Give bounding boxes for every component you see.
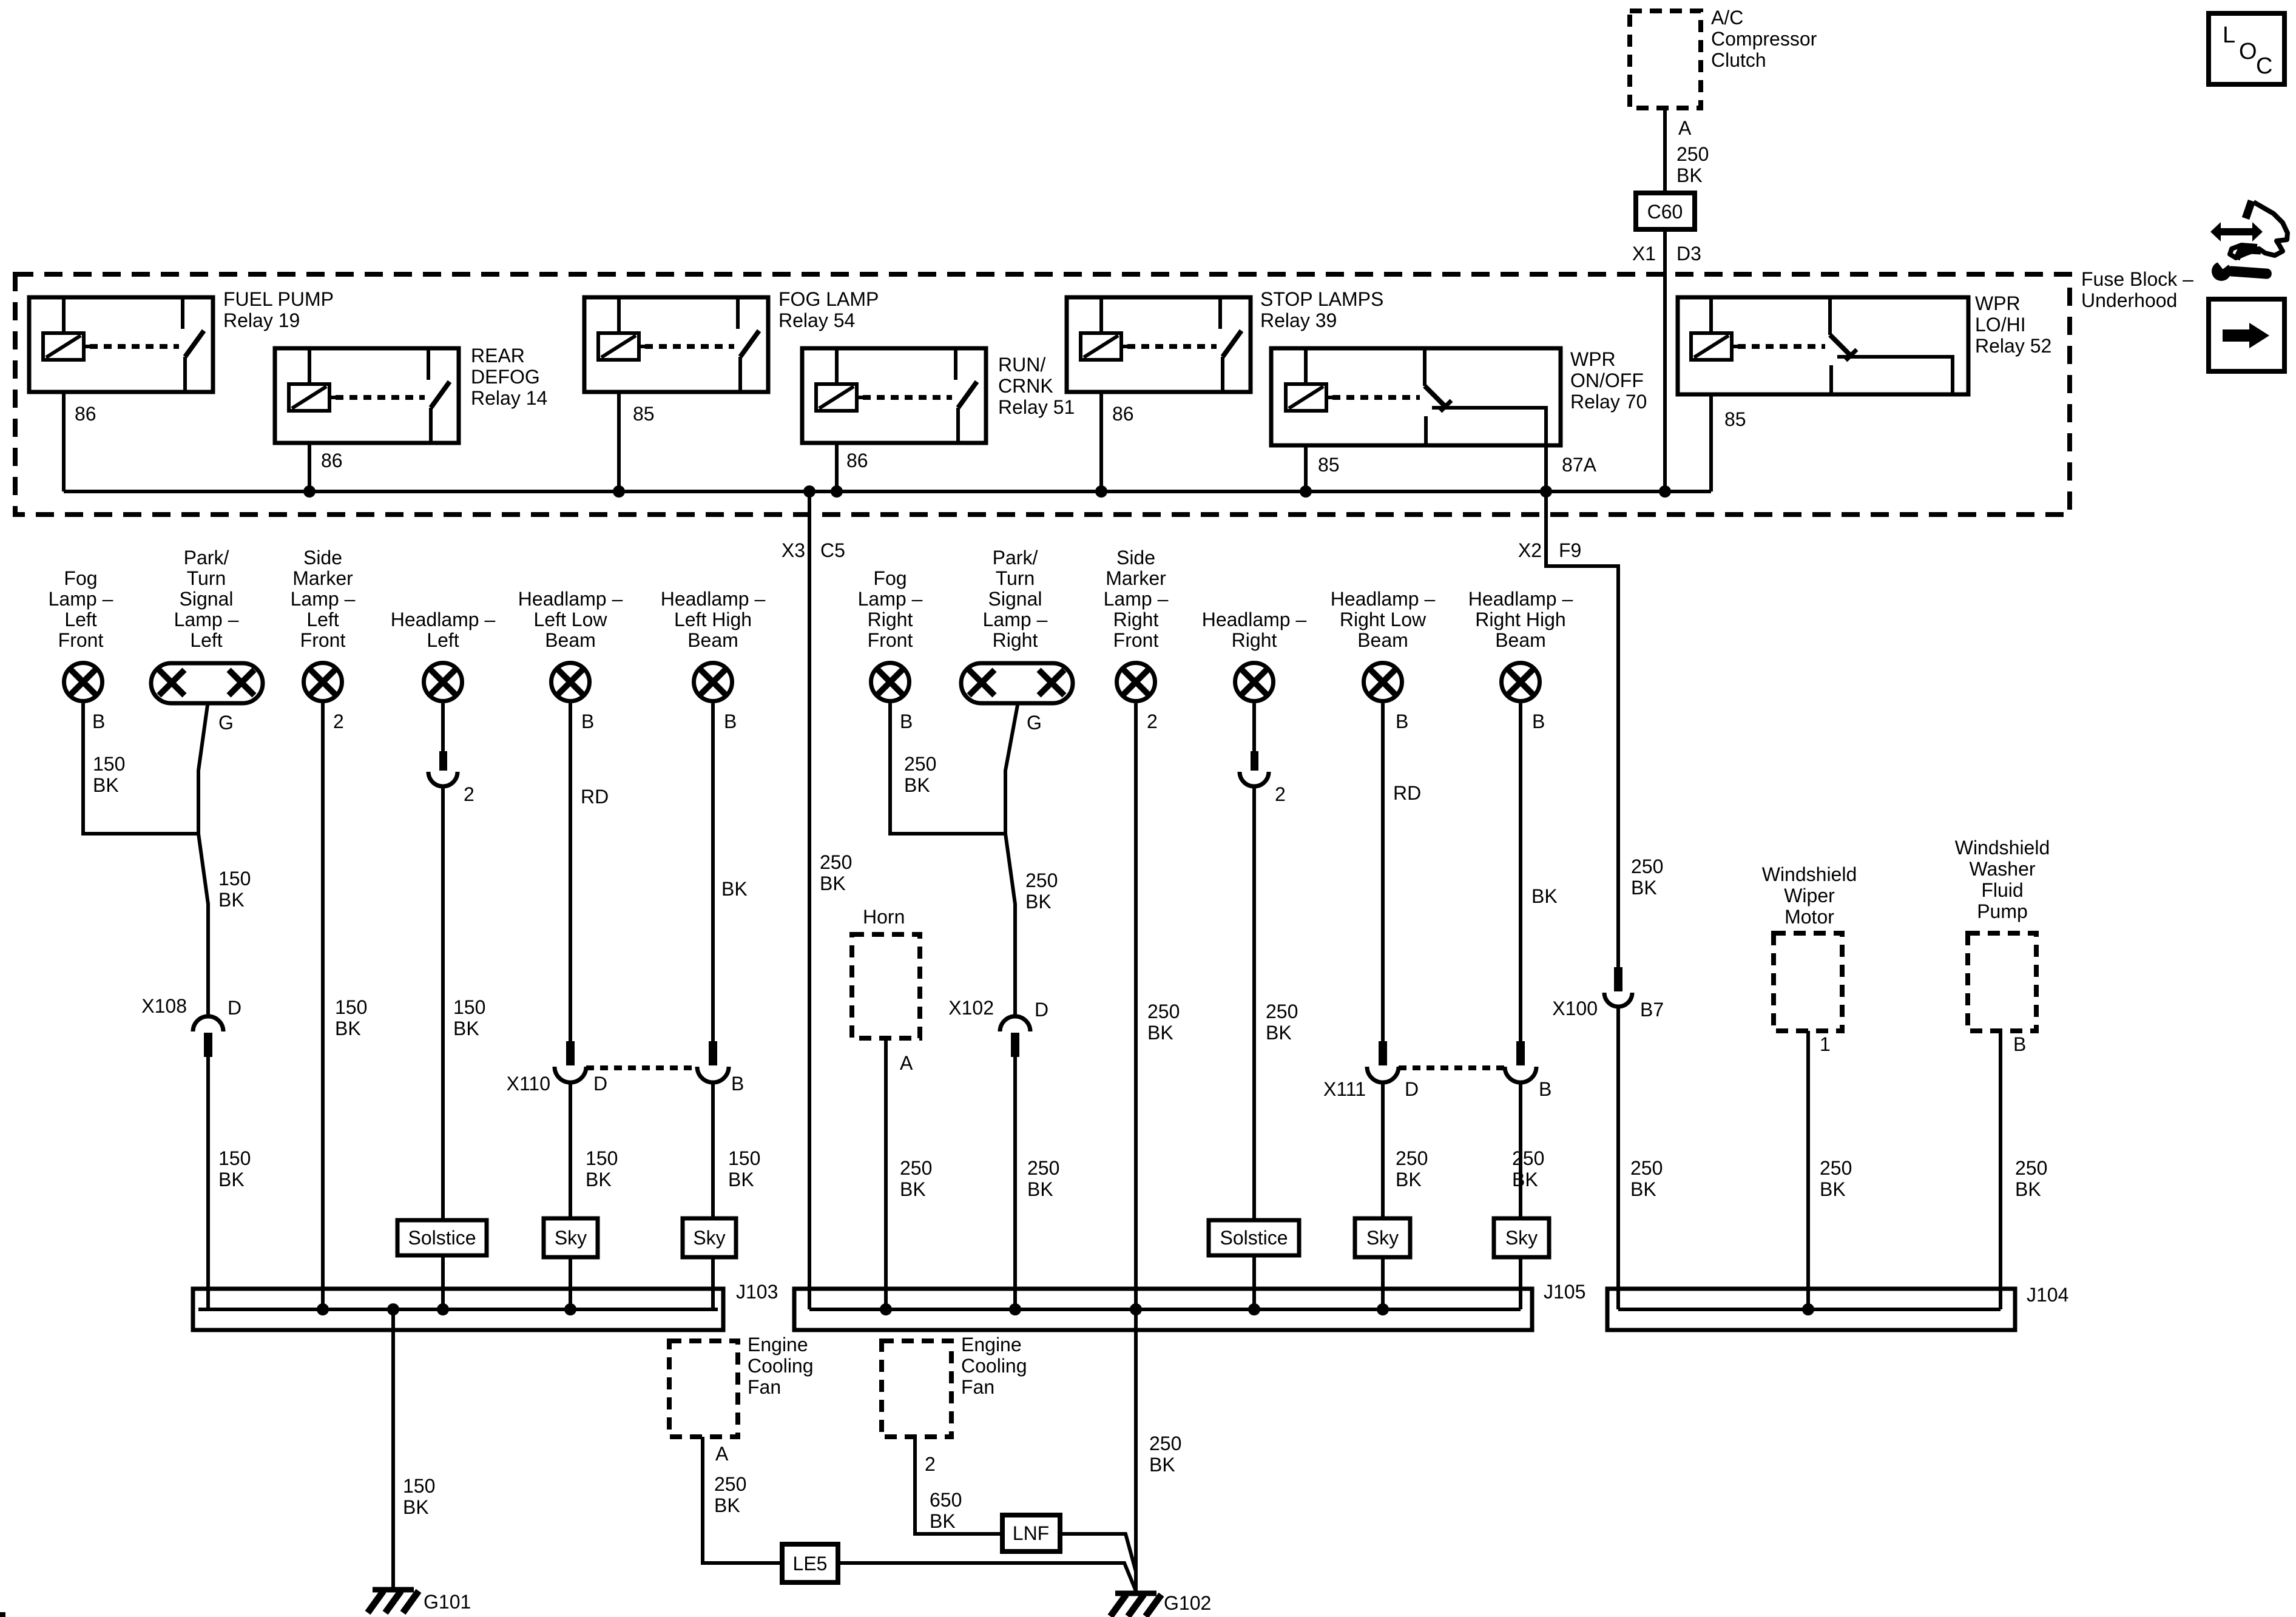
wire: wiper motor pin 1 to J104 bbox=[1806, 1031, 1810, 1309]
svg-text:Beam: Beam bbox=[545, 629, 596, 651]
svg-text:BK: BK bbox=[1149, 1454, 1175, 1476]
svg-text:250: 250 bbox=[904, 753, 936, 775]
svg-text:Front: Front bbox=[300, 629, 346, 651]
svg-text:LO/HI: LO/HI bbox=[1975, 314, 2026, 336]
lamp: Headlamp - Left High Beam bbox=[694, 663, 732, 701]
connector X102 (inline) bbox=[1000, 1016, 1030, 1031]
wire: low beam right down to X111 bbox=[1381, 703, 1385, 1041]
svg-text:Engine: Engine bbox=[748, 1334, 808, 1355]
svg-text:Clutch: Clutch bbox=[1711, 49, 1766, 71]
option box Sky (right high beam) bbox=[1494, 1218, 1549, 1257]
svg-text:BK: BK bbox=[218, 1169, 245, 1190]
junction: side marker left on J103 bbox=[317, 1303, 329, 1315]
wire: J103 to G101 bbox=[391, 1309, 395, 1590]
junction: low beam left on J103 bbox=[564, 1303, 576, 1315]
svg-text:85: 85 bbox=[1724, 408, 1746, 430]
svg-text:Engine: Engine bbox=[961, 1334, 1022, 1355]
svg-text:J105: J105 bbox=[1544, 1281, 1585, 1303]
svg-text:X1: X1 bbox=[1632, 243, 1656, 265]
svg-text:Right: Right bbox=[1232, 629, 1277, 651]
svg-text:G102: G102 bbox=[1164, 1592, 1211, 1614]
relay FOG LAMP Relay 54 bbox=[584, 297, 768, 392]
wire: X111 B to J105 bbox=[1519, 1082, 1522, 1309]
svg-text:Left High: Left High bbox=[674, 609, 752, 630]
svg-text:BK: BK bbox=[1147, 1022, 1173, 1044]
wire: J105 to G102 bbox=[1134, 1309, 1138, 1593]
svg-text:150: 150 bbox=[403, 1475, 435, 1497]
svg-text:Lamp –: Lamp – bbox=[858, 588, 923, 610]
svg-text:LE5: LE5 bbox=[793, 1553, 828, 1575]
svg-text:D3: D3 bbox=[1676, 243, 1701, 265]
svg-text:Fan: Fan bbox=[961, 1376, 994, 1398]
svg-text:FOG LAMP: FOG LAMP bbox=[778, 288, 879, 310]
lamp: Headlamp - Right High Beam bbox=[1502, 663, 1540, 701]
svg-text:B: B bbox=[900, 711, 913, 732]
junction: X1 wire on bus bbox=[1659, 485, 1671, 498]
svg-text:Marker: Marker bbox=[292, 567, 353, 589]
Engine Cooling Fan 2 (dashed component box) bbox=[882, 1341, 951, 1437]
svg-text:BK: BK bbox=[1512, 1169, 1538, 1190]
Horn (dashed component box) bbox=[852, 934, 920, 1038]
connector X100 (inline) bbox=[1614, 967, 1622, 991]
junction: headlamp left on J103 bbox=[437, 1303, 449, 1315]
svg-text:2: 2 bbox=[464, 783, 474, 805]
svg-text:Sky: Sky bbox=[1505, 1227, 1538, 1249]
svg-text:BK: BK bbox=[1820, 1178, 1846, 1200]
svg-text:Solstice: Solstice bbox=[1220, 1227, 1288, 1249]
svg-text:150: 150 bbox=[335, 996, 367, 1018]
svg-text:G: G bbox=[1027, 712, 1042, 734]
svg-text:X2: X2 bbox=[1518, 539, 1542, 561]
stray period mark bottom-left bbox=[0, 1612, 5, 1617]
svg-text:G: G bbox=[218, 712, 234, 734]
wire: X102 to J105 bbox=[1013, 1057, 1017, 1309]
wire: X100 to J104 bbox=[1616, 1008, 1620, 1309]
wire: low beam left down to X110 bbox=[569, 703, 572, 1041]
svg-text:Relay 14: Relay 14 bbox=[471, 387, 547, 409]
svg-text:250: 250 bbox=[1630, 1157, 1663, 1179]
lamp: Side Marker Lamp - Left Front bbox=[304, 663, 342, 701]
svg-text:BK: BK bbox=[2015, 1178, 2041, 1200]
svg-text:Lamp –: Lamp – bbox=[49, 588, 113, 610]
svg-text:250: 250 bbox=[1147, 1001, 1180, 1022]
svg-text:B: B bbox=[92, 711, 105, 732]
svg-text:G101: G101 bbox=[424, 1591, 471, 1613]
svg-text:Front: Front bbox=[1113, 629, 1159, 651]
junction: X3 tap on bus bbox=[803, 485, 815, 498]
option box Sky (left high beam) bbox=[683, 1218, 736, 1257]
svg-text:87A: 87A bbox=[1562, 454, 1597, 476]
wire: side marker left to J103 bbox=[321, 703, 325, 1309]
dashed link X111 bbox=[1399, 1065, 1507, 1070]
lamp: Fog Lamp - Right Front bbox=[871, 663, 910, 701]
svg-text:BK: BK bbox=[904, 774, 930, 796]
svg-text:Signal: Signal bbox=[988, 588, 1042, 610]
svg-text:D: D bbox=[593, 1073, 607, 1095]
svg-text:150: 150 bbox=[93, 753, 125, 775]
svg-text:L: L bbox=[2223, 22, 2235, 48]
connector X111 terminal D bbox=[1379, 1041, 1387, 1065]
junction: rear defog 86 on bus bbox=[303, 485, 316, 498]
svg-text:X102: X102 bbox=[948, 997, 994, 1019]
svg-text:STOP LAMPS: STOP LAMPS bbox=[1260, 288, 1383, 310]
svg-text:B: B bbox=[1396, 711, 1408, 732]
wire: run/crnk pin 86 to ground bus bbox=[835, 443, 839, 491]
svg-text:BK: BK bbox=[930, 1510, 956, 1532]
svg-text:Turn: Turn bbox=[996, 567, 1035, 589]
svg-text:Cooling: Cooling bbox=[961, 1355, 1027, 1377]
svg-text:A: A bbox=[715, 1443, 729, 1465]
svg-text:85: 85 bbox=[1318, 454, 1340, 476]
Fuse Block - Underhood (dashed boundary) bbox=[15, 274, 2070, 515]
svg-text:BK: BK bbox=[218, 889, 245, 911]
svg-text:J104: J104 bbox=[2027, 1284, 2068, 1306]
wire: park/turn right pin G down bbox=[1005, 705, 1018, 1016]
lamp: Park/Turn Signal Lamp - Right (dual) bbox=[961, 663, 1073, 703]
svg-text:Lamp –: Lamp – bbox=[983, 609, 1048, 630]
wire: headlamp left pin down bbox=[441, 703, 445, 751]
svg-text:B: B bbox=[2013, 1033, 2026, 1055]
connector X110 terminal B bbox=[709, 1041, 717, 1065]
svg-text:ON/OFF: ON/OFF bbox=[1570, 370, 1644, 391]
svg-text:150: 150 bbox=[453, 996, 485, 1018]
svg-text:C5: C5 bbox=[820, 539, 845, 561]
svg-text:BK: BK bbox=[728, 1169, 754, 1190]
svg-text:150: 150 bbox=[218, 1147, 251, 1169]
svg-text:BK: BK bbox=[1631, 877, 1657, 899]
svg-text:Lamp –: Lamp – bbox=[1104, 588, 1169, 610]
svg-text:BK: BK bbox=[586, 1169, 612, 1190]
svg-text:1: 1 bbox=[1820, 1033, 1831, 1055]
svg-text:150: 150 bbox=[586, 1147, 618, 1169]
option box Sky (left low beam) bbox=[544, 1218, 598, 1257]
wire: X110 D to J103 bbox=[569, 1082, 572, 1309]
junction: low beam right on J105 bbox=[1377, 1303, 1389, 1315]
wire: X2/F9 feeder from 87A down and right bbox=[1546, 491, 1618, 967]
relay FUEL PUMP Relay 19 bbox=[29, 297, 213, 392]
svg-text:J103: J103 bbox=[736, 1281, 778, 1303]
svg-text:REAR: REAR bbox=[471, 345, 525, 366]
svg-text:Signal: Signal bbox=[180, 588, 234, 610]
svg-text:Pump: Pump bbox=[1977, 900, 2028, 922]
svg-text:Lamp –: Lamp – bbox=[291, 588, 356, 610]
svg-text:250: 250 bbox=[1027, 1157, 1059, 1179]
icon: service hand-wrench with double arrow bbox=[2210, 222, 2263, 241]
svg-text:B: B bbox=[724, 711, 737, 732]
svg-text:150: 150 bbox=[218, 868, 251, 890]
svg-text:Left: Left bbox=[427, 629, 459, 651]
svg-text:X100: X100 bbox=[1552, 998, 1598, 1019]
wire: high beam left down to X110 bbox=[711, 703, 715, 1041]
icon: forward arrow box bbox=[2209, 299, 2284, 371]
svg-text:86: 86 bbox=[1112, 403, 1134, 425]
wire: fan 2 pin 2 to LNF bbox=[915, 1437, 1002, 1534]
svg-text:Solstice: Solstice bbox=[408, 1227, 476, 1249]
Engine Cooling Fan 1 (dashed component box) bbox=[669, 1341, 738, 1437]
svg-text:B: B bbox=[731, 1073, 744, 1095]
svg-text:WPR: WPR bbox=[1975, 292, 2021, 314]
lamp: Headlamp - Left bbox=[424, 663, 462, 701]
svg-text:BK: BK bbox=[93, 774, 119, 796]
junction: fog relay 85 on bus bbox=[613, 485, 625, 498]
wire: fuel pump pin 86 to ground bus bbox=[62, 392, 66, 491]
svg-text:Front: Front bbox=[868, 629, 913, 651]
svg-text:2: 2 bbox=[333, 711, 344, 732]
svg-text:Headlamp –: Headlamp – bbox=[1202, 609, 1307, 630]
wire: wpr on/off pin 87A to bus bbox=[1544, 445, 1548, 491]
svg-text:Left Low: Left Low bbox=[534, 609, 608, 630]
svg-text:Sky: Sky bbox=[693, 1227, 725, 1249]
svg-text:BK: BK bbox=[335, 1018, 361, 1039]
svg-text:FUEL PUMP: FUEL PUMP bbox=[223, 288, 334, 310]
svg-text:A: A bbox=[1678, 117, 1692, 139]
svg-text:Left: Left bbox=[64, 609, 96, 630]
svg-text:BK: BK bbox=[1531, 885, 1558, 907]
relay STOP LAMPS Relay 39 bbox=[1067, 297, 1251, 392]
svg-text:250: 250 bbox=[1149, 1433, 1181, 1454]
svg-text:BK: BK bbox=[403, 1496, 429, 1518]
svg-text:Left: Left bbox=[306, 609, 339, 630]
svg-text:RUN/: RUN/ bbox=[998, 354, 1045, 376]
svg-text:Sky: Sky bbox=[1366, 1227, 1399, 1249]
svg-text:Fan: Fan bbox=[748, 1376, 781, 1398]
svg-text:Motor: Motor bbox=[1784, 906, 1834, 928]
svg-text:Headlamp –: Headlamp – bbox=[661, 588, 766, 610]
svg-text:Fog: Fog bbox=[64, 567, 97, 589]
splice pack J105 bbox=[794, 1289, 1532, 1330]
svg-text:B: B bbox=[1539, 1078, 1551, 1100]
svg-text:Lamp –: Lamp – bbox=[174, 609, 239, 630]
Windshield Washer Fluid Pump (dashed component box) bbox=[1968, 933, 2036, 1031]
option box LE5 bbox=[782, 1544, 838, 1582]
svg-text:Park/: Park/ bbox=[184, 547, 229, 569]
svg-text:X3: X3 bbox=[782, 539, 805, 561]
relay RUN/CRNK Relay 51 bbox=[802, 348, 986, 443]
wire: C60 to fuse block bus X1/D3 bbox=[1663, 229, 1667, 491]
wire: fan 1 pin A to LE5 bbox=[703, 1437, 782, 1563]
wire: LNF to G102 bbox=[1060, 1534, 1136, 1571]
svg-text:B: B bbox=[581, 711, 594, 732]
lamp: Headlamp - Right bbox=[1235, 663, 1274, 701]
connector X110 terminal D bbox=[566, 1041, 575, 1065]
wire: rear defog pin 86 to ground bus bbox=[308, 443, 311, 491]
icon: L-O-C cell reference box bbox=[2209, 13, 2284, 84]
wire: stop lamps pin 86 to ground bus bbox=[1099, 392, 1103, 491]
svg-text:Relay 39: Relay 39 bbox=[1260, 309, 1337, 331]
svg-text:Sky: Sky bbox=[555, 1227, 587, 1249]
svg-text:Beam: Beam bbox=[1357, 629, 1408, 651]
svg-text:X110: X110 bbox=[507, 1073, 550, 1095]
svg-text:DEFOG: DEFOG bbox=[471, 366, 540, 388]
svg-text:Relay 51: Relay 51 bbox=[998, 396, 1075, 418]
svg-text:BK: BK bbox=[1266, 1022, 1292, 1044]
svg-text:BK: BK bbox=[721, 878, 748, 900]
svg-text:F9: F9 bbox=[1559, 539, 1581, 561]
svg-text:Right High: Right High bbox=[1475, 609, 1565, 630]
svg-text:Washer: Washer bbox=[1969, 858, 2035, 880]
splice pack J104 bbox=[1607, 1289, 2015, 1330]
svg-text:BK: BK bbox=[900, 1178, 926, 1200]
svg-text:Headlamp –: Headlamp – bbox=[1331, 588, 1436, 610]
wire: LE5 to G102 bbox=[838, 1563, 1136, 1591]
junction: wpr on/off 85 on bus bbox=[1300, 485, 1312, 498]
svg-text:Park/: Park/ bbox=[993, 547, 1038, 569]
svg-text:X111: X111 bbox=[1323, 1078, 1366, 1100]
svg-text:WPR: WPR bbox=[1570, 348, 1616, 370]
junction: 87A / X2 tap on bus bbox=[1540, 485, 1552, 498]
svg-text:Windshield: Windshield bbox=[1955, 837, 2050, 859]
wire: washer pump pin B to J104 bbox=[1999, 1031, 2002, 1309]
svg-text:250: 250 bbox=[1820, 1157, 1852, 1179]
svg-text:Headlamp –: Headlamp – bbox=[1468, 588, 1573, 610]
svg-text:2: 2 bbox=[925, 1453, 936, 1475]
junction: X102 wire on J105 bbox=[1009, 1303, 1021, 1315]
wire: fog lamp right pin B down and right bbox=[890, 703, 1005, 834]
svg-text:BK: BK bbox=[714, 1494, 740, 1516]
wire: X108 to J103 bbox=[206, 1057, 210, 1309]
svg-text:Side: Side bbox=[303, 547, 342, 569]
svg-text:Wiper: Wiper bbox=[1784, 885, 1835, 906]
svg-text:250: 250 bbox=[1631, 856, 1663, 877]
wire: headlamp left to J103 bbox=[441, 786, 445, 1309]
svg-text:Fog: Fog bbox=[873, 567, 907, 589]
splice pack J103 bbox=[193, 1289, 723, 1330]
lamp: Headlamp - Right Low Beam bbox=[1364, 663, 1402, 701]
wire: fog lamp relay pin 85 to ground bus bbox=[617, 392, 621, 491]
wire: X111 D to J105 bbox=[1381, 1082, 1385, 1309]
svg-text:250: 250 bbox=[1025, 869, 1058, 891]
svg-text:Beam: Beam bbox=[687, 629, 738, 651]
svg-text:BK: BK bbox=[453, 1018, 479, 1039]
svg-text:Headlamp –: Headlamp – bbox=[391, 609, 496, 630]
svg-text:BK: BK bbox=[1630, 1178, 1656, 1200]
wire: fuse block internal ground bus bbox=[64, 490, 1711, 493]
svg-text:Windshield: Windshield bbox=[1762, 863, 1857, 885]
svg-text:BK: BK bbox=[1676, 164, 1703, 186]
svg-text:Side: Side bbox=[1116, 547, 1155, 569]
svg-text:X108: X108 bbox=[141, 995, 187, 1017]
svg-text:Left: Left bbox=[190, 629, 222, 651]
wire: X110 B to J103 bbox=[711, 1082, 715, 1309]
svg-text:A: A bbox=[900, 1052, 913, 1074]
svg-text:Cooling: Cooling bbox=[748, 1355, 814, 1377]
svg-text:RD: RD bbox=[581, 786, 609, 808]
svg-text:86: 86 bbox=[321, 450, 343, 471]
svg-text:D: D bbox=[228, 997, 241, 1019]
svg-text:250: 250 bbox=[820, 851, 852, 873]
wire: headlamp right to J105 bbox=[1252, 786, 1256, 1309]
svg-text:BK: BK bbox=[1396, 1169, 1422, 1190]
option box Sky (right low beam) bbox=[1355, 1218, 1410, 1257]
ground G101 bbox=[373, 1587, 414, 1593]
svg-text:Relay 54: Relay 54 bbox=[778, 309, 855, 331]
lamp: Park/Turn Signal Lamp - Left (dual) bbox=[151, 663, 263, 703]
svg-text:Relay 70: Relay 70 bbox=[1570, 391, 1647, 413]
svg-text:Marker: Marker bbox=[1106, 567, 1166, 589]
svg-text:Right: Right bbox=[1113, 609, 1159, 630]
wire: X3/C5 feeder down to J105 bbox=[808, 491, 811, 1309]
lamp: Fog Lamp - Left Front bbox=[64, 663, 103, 701]
wire: high beam right down to X111 bbox=[1519, 703, 1522, 1041]
lamp: Headlamp - Left Low Beam bbox=[552, 663, 590, 701]
wire: fog lamp left pin B down and right bbox=[83, 703, 198, 834]
A/C Compressor Clutch (dashed component box) bbox=[1630, 11, 1701, 108]
svg-text:C: C bbox=[2256, 53, 2272, 79]
svg-text:RD: RD bbox=[1393, 782, 1421, 804]
relay REAR DEFOG Relay 14 bbox=[275, 348, 459, 443]
wire: wpr lo/hi pin 85 to ground bus end bbox=[1709, 394, 1713, 491]
svg-text:250: 250 bbox=[714, 1473, 746, 1495]
svg-text:Front: Front bbox=[58, 629, 104, 651]
option box LNF bbox=[1002, 1515, 1060, 1551]
svg-text:BK: BK bbox=[820, 873, 846, 894]
svg-text:Fluid: Fluid bbox=[1981, 879, 2023, 901]
svg-text:Underhood: Underhood bbox=[2081, 289, 2177, 311]
svg-text:A/C: A/C bbox=[1711, 7, 1743, 29]
svg-text:Beam: Beam bbox=[1495, 629, 1546, 651]
connector X108 (inline) bbox=[193, 1016, 223, 1031]
svg-text:D: D bbox=[1405, 1078, 1419, 1100]
svg-text:Relay 19: Relay 19 bbox=[223, 309, 300, 331]
option box Solstice (left headlamp) bbox=[397, 1220, 487, 1255]
svg-text:Right: Right bbox=[993, 629, 1038, 651]
Windshield Wiper Motor (dashed component box) bbox=[1774, 933, 1842, 1031]
svg-text:CRNK: CRNK bbox=[998, 375, 1053, 397]
wire: side marker right to J105 bbox=[1134, 703, 1138, 1309]
svg-text:250: 250 bbox=[1396, 1147, 1428, 1169]
ground G102 bbox=[1115, 1591, 1156, 1596]
lamp: Side Marker Lamp - Right Front bbox=[1117, 663, 1155, 701]
svg-text:86: 86 bbox=[846, 450, 868, 471]
svg-text:Fuse Block –: Fuse Block – bbox=[2081, 268, 2193, 290]
junction: headlamp right on J105 bbox=[1248, 1303, 1260, 1315]
connector C60 bbox=[1636, 193, 1695, 229]
connector: headlamp right inline connector bbox=[1251, 751, 1258, 771]
svg-text:O: O bbox=[2239, 39, 2257, 64]
junction: G102 tap on J105 bbox=[1130, 1303, 1142, 1315]
option box Solstice (right headlamp) bbox=[1209, 1220, 1299, 1255]
relay WPR ON/OFF Relay 70 bbox=[1271, 348, 1561, 445]
junction: horn on J105 bbox=[880, 1303, 892, 1315]
connector X111 terminal B bbox=[1516, 1041, 1525, 1065]
svg-text:B: B bbox=[1532, 711, 1545, 732]
svg-text:BK: BK bbox=[1025, 891, 1052, 913]
svg-text:B7: B7 bbox=[1640, 999, 1664, 1021]
svg-text:2: 2 bbox=[1147, 711, 1158, 732]
wire: wpr on/off pin 85 to ground bus bbox=[1304, 445, 1308, 491]
svg-text:2: 2 bbox=[1275, 783, 1286, 805]
svg-text:D: D bbox=[1035, 999, 1048, 1021]
svg-text:LNF: LNF bbox=[1013, 1522, 1049, 1544]
svg-text:250: 250 bbox=[2015, 1157, 2047, 1179]
svg-text:C60: C60 bbox=[1647, 201, 1683, 223]
svg-text:Relay 52: Relay 52 bbox=[1975, 335, 2051, 357]
svg-text:250: 250 bbox=[900, 1157, 932, 1179]
wire: horn pin A to J105 bbox=[884, 1038, 888, 1309]
svg-text:650: 650 bbox=[930, 1489, 962, 1511]
junction: run/crnk 86 on bus bbox=[831, 485, 843, 498]
svg-text:Horn: Horn bbox=[863, 906, 905, 928]
svg-text:86: 86 bbox=[75, 403, 96, 425]
connector: headlamp left inline connector bbox=[439, 751, 447, 771]
svg-text:85: 85 bbox=[633, 403, 655, 425]
relay WPR LO/HI Relay 52 bbox=[1678, 297, 1968, 394]
wire: headlamp right pin down bbox=[1252, 703, 1256, 751]
svg-text:250: 250 bbox=[1676, 143, 1709, 165]
wire: park/turn left pin G down bbox=[198, 705, 208, 1016]
junction: stop lamps 86 on bus bbox=[1095, 485, 1107, 498]
wire: A/C clutch pin A to C60 bbox=[1663, 108, 1667, 193]
